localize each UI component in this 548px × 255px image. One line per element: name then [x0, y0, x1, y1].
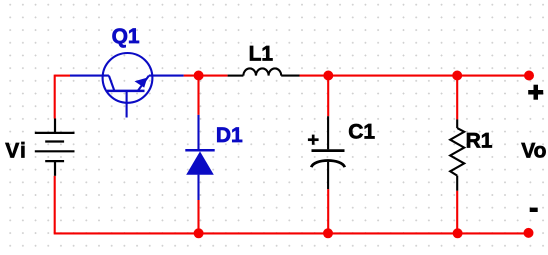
svg-text:Q1: Q1 [112, 25, 140, 48]
svg-text:R1: R1 [466, 130, 493, 153]
svg-text:D1: D1 [216, 124, 243, 147]
svg-text:L1: L1 [249, 43, 274, 66]
svg-text:Vi: Vi [5, 140, 27, 163]
svg-text:Vo: Vo [521, 140, 546, 163]
svg-text:C1: C1 [348, 120, 375, 143]
